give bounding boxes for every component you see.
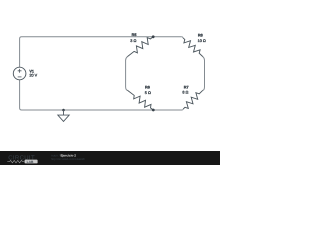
svg-text:3 Ω: 3 Ω bbox=[130, 39, 136, 43]
node dot bottom junction bbox=[152, 109, 155, 112]
wire R8 top bend bbox=[182, 37, 183, 38]
wire left vertical of bridge bbox=[126, 57, 128, 91]
wire right vertical of bridge bbox=[203, 57, 205, 91]
svg-text:nuun / Ejercicio 2: nuun / Ejercicio 2 bbox=[51, 154, 76, 158]
svg-text:20 V: 20 V bbox=[29, 74, 37, 78]
svg-text:5 Ω: 5 Ω bbox=[145, 91, 151, 95]
svg-text:R8: R8 bbox=[198, 33, 203, 37]
V1 minus bbox=[18, 76, 22, 78]
wire bottom: V1 bottom to R7 lead bbox=[20, 80, 183, 110]
node dot ground bbox=[62, 109, 65, 112]
wire top: V1 top to R8 lead bbox=[20, 37, 182, 68]
footer bar bbox=[0, 151, 220, 165]
svg-text:http://circuitlab.com/cxka62b: http://circuitlab.com/cxka62b bbox=[51, 158, 85, 161]
voltage source V1 bbox=[13, 67, 26, 80]
resistor R6 bbox=[127, 90, 153, 110]
svg-text:10 Ω: 10 Ω bbox=[198, 39, 206, 43]
node dot top junction bbox=[152, 35, 155, 38]
resistor R7 bbox=[183, 90, 203, 109]
resistor R5 bbox=[127, 37, 153, 57]
wire R7 bottom bend bbox=[181, 109, 184, 110]
svg-text:R7: R7 bbox=[184, 85, 189, 89]
ground bbox=[58, 110, 69, 121]
svg-text:R6: R6 bbox=[145, 85, 150, 89]
footer logo LAB box bbox=[25, 160, 38, 164]
svg-text:8 Ω: 8 Ω bbox=[182, 90, 188, 94]
V1 plus bbox=[18, 69, 22, 73]
footer logo zigzag bbox=[7, 160, 24, 162]
svg-text:LAB: LAB bbox=[27, 160, 34, 164]
resistor R8 bbox=[183, 38, 203, 57]
svg-text:R5: R5 bbox=[132, 33, 137, 37]
